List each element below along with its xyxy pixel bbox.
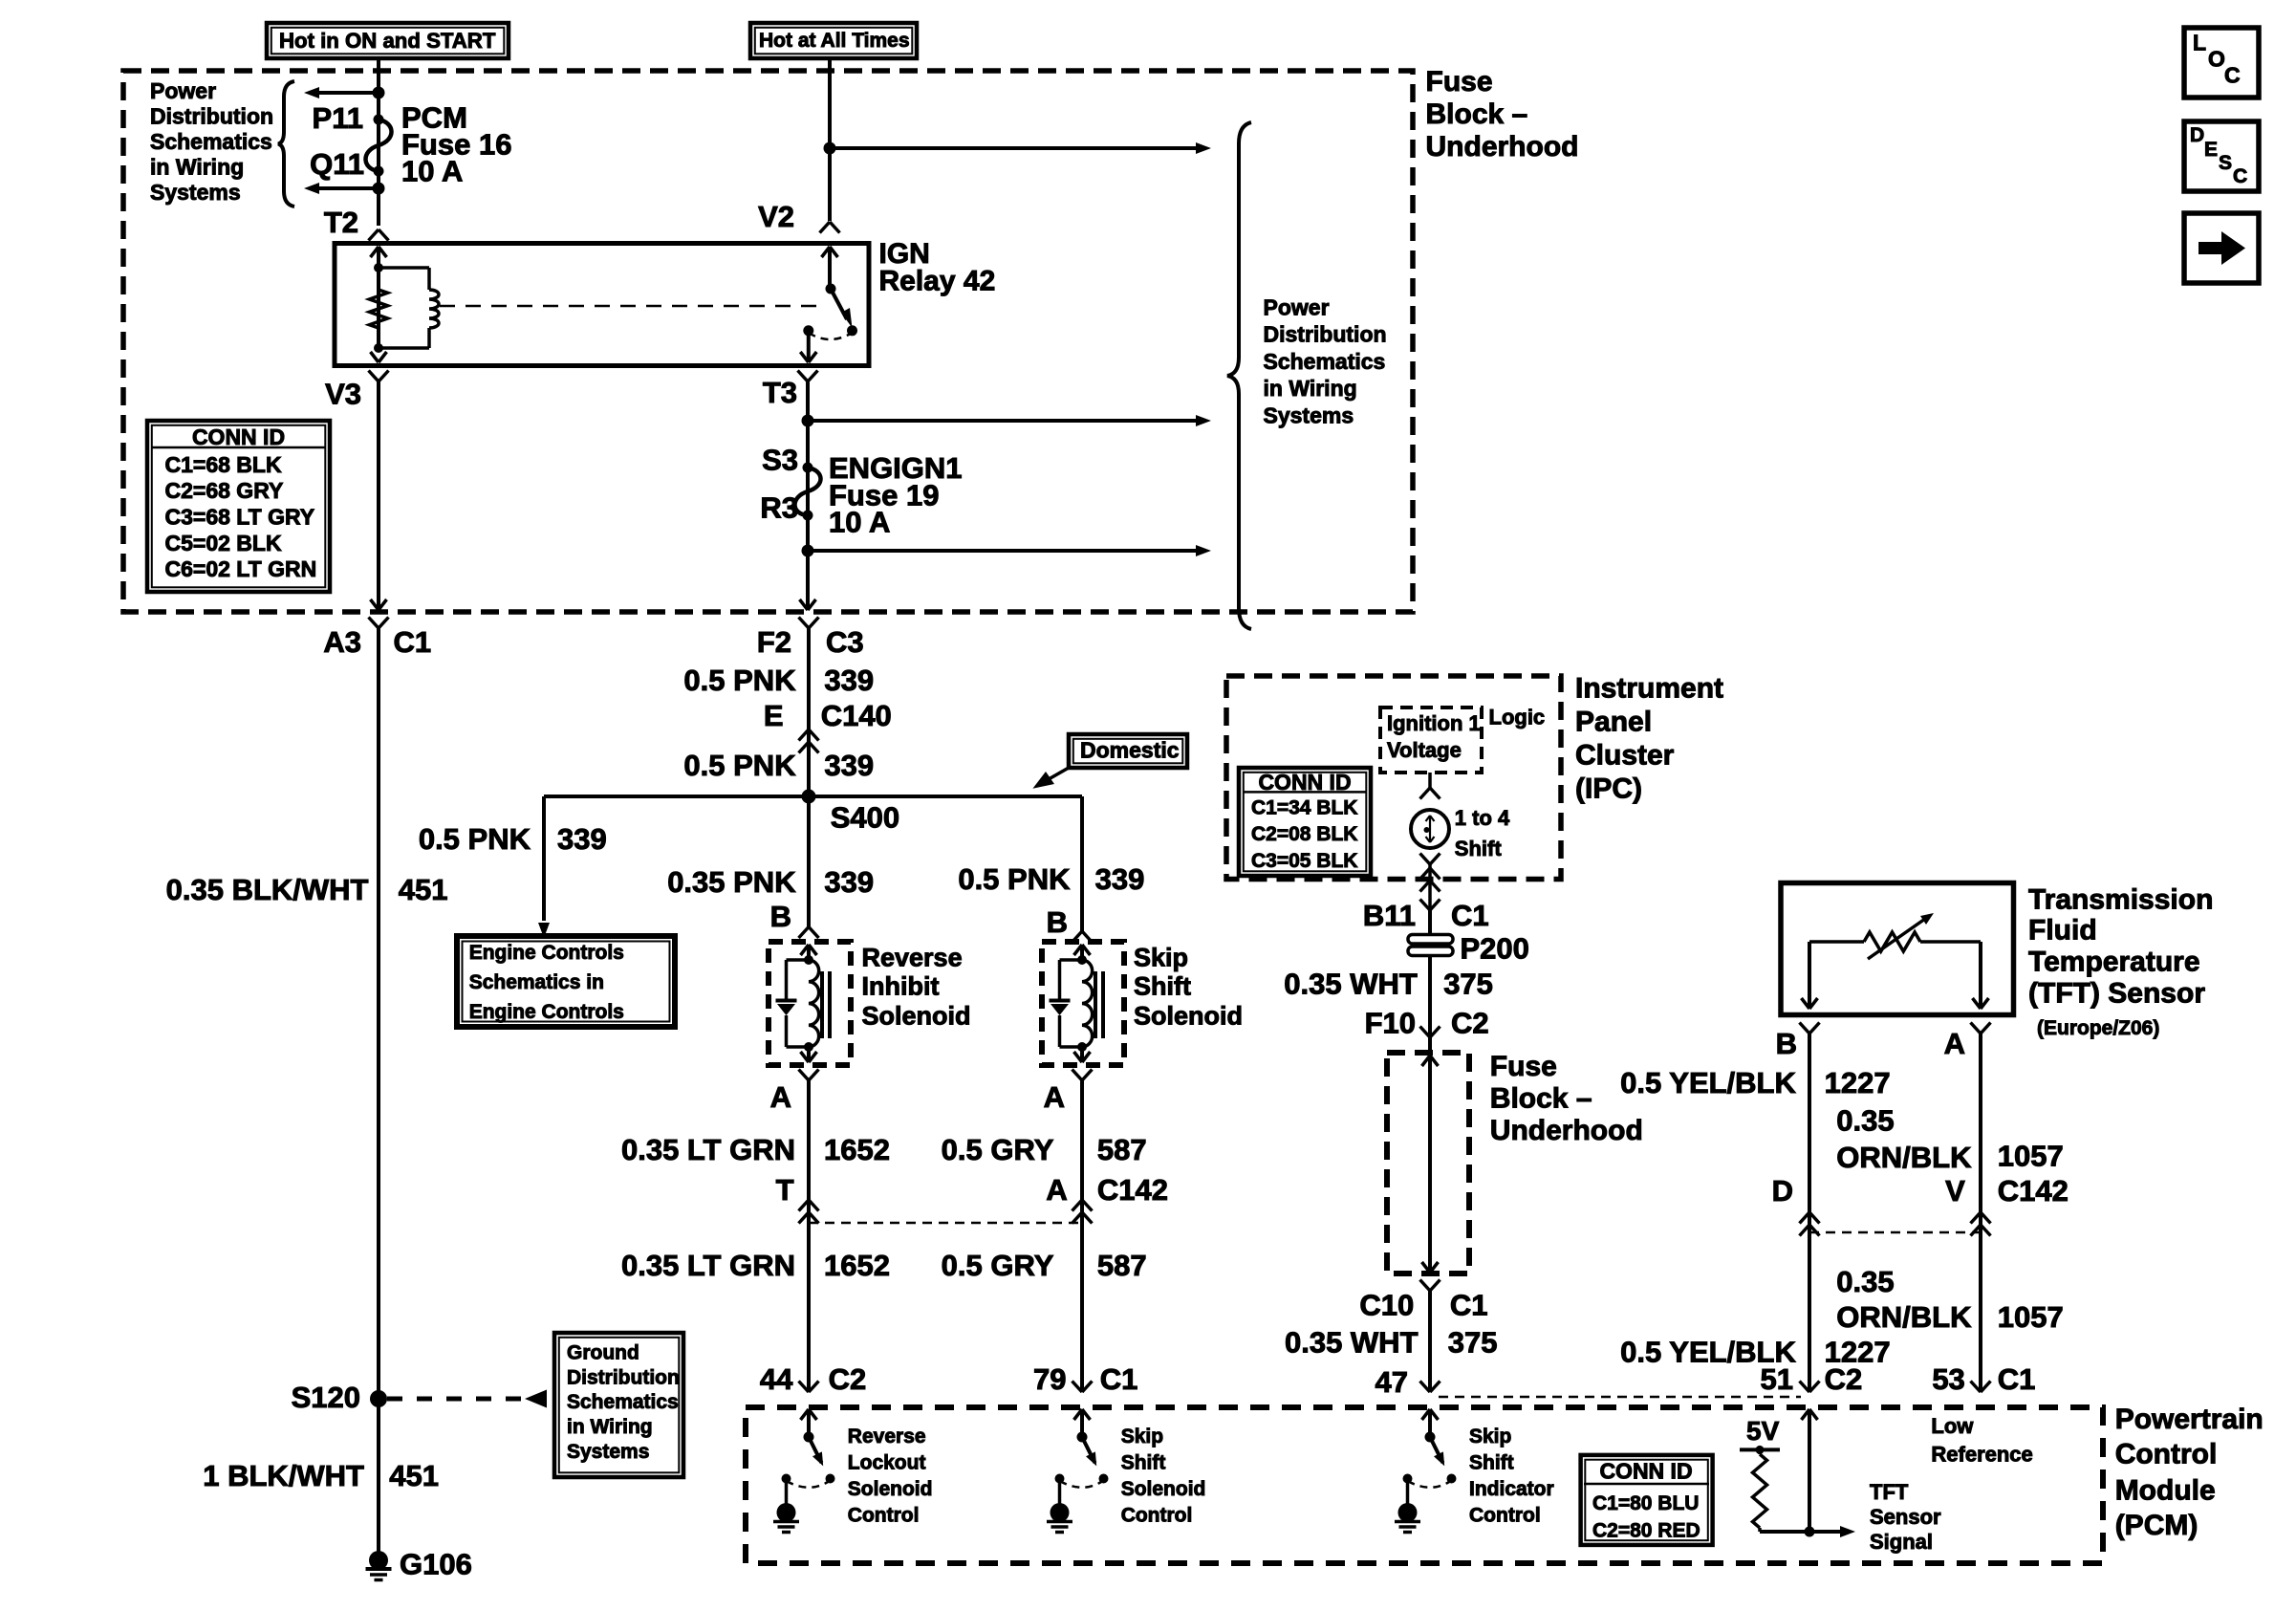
wire entering PCM [807,1409,811,1437]
forward arrow box [2184,213,2259,283]
svg-text:Skip: Skip [1121,1426,1163,1448]
note box: Ground Distribution Schematics in Wiring Systems [554,1333,683,1477]
svg-text:1 BLK/WHT: 1 BLK/WHT [203,1459,364,1492]
svg-text:Systems: Systems [150,180,241,205]
wire indicator to B11 [1420,854,1431,865]
svg-text:0.35 WHT: 0.35 WHT [1285,1325,1419,1359]
solenoid feed wire w/ arrows [807,945,811,960]
svg-text:Engine Controls: Engine Controls [469,942,624,964]
wire arrow to power distribution [315,186,379,190]
junction node (P11 feed) [373,87,385,99]
svg-text:Skip: Skip [1469,1426,1511,1448]
relay coil feed wire [377,247,380,348]
connector chevron V2 [820,222,831,233]
svg-text:339: 339 [824,749,874,782]
brace (right power distribution) [1227,122,1251,629]
wire T3 down [806,381,810,609]
connector chevron T2 [369,229,379,241]
svg-text:C2: C2 [829,1362,867,1396]
svg-text:Control: Control [1469,1505,1541,1527]
svg-text:Logic: Logic [1489,706,1546,729]
wire entering PCM [1428,1409,1432,1437]
svg-text:CONN ID: CONN ID [192,425,285,449]
svg-text:Inhibit: Inhibit [862,971,940,1000]
svg-text:Low: Low [1931,1414,1974,1438]
clamp diode [787,958,810,962]
svg-text:Systems: Systems [1264,403,1354,427]
junction node V2 branch [824,142,836,155]
wire entering PCM [1080,1409,1084,1437]
svg-text:(Europe/Z06): (Europe/Z06) [2037,1017,2159,1039]
svg-text:Relay 42: Relay 42 [879,266,996,297]
svg-text:339: 339 [557,822,607,856]
wire: hot at all times feed [828,58,832,221]
svg-text:0.5 GRY: 0.5 GRY [942,1133,1054,1166]
switch common contact [1425,1432,1436,1443]
svg-text:C2: C2 [1451,1007,1489,1040]
svg-text:B11: B11 [1363,899,1416,932]
dashed link to ground distribution [387,1397,525,1402]
svg-text:Solenoid: Solenoid [1134,1001,1243,1030]
connector C142 dashed link [809,1222,1082,1225]
svg-text:Fuse: Fuse [1426,66,1493,98]
svg-text:(IPC): (IPC) [1575,773,1642,805]
CONN ID table (IPC) [1239,768,1371,876]
wire arrow to power distribution brace [830,146,1197,150]
svg-text:Hot in ON and START: Hot in ON and START [279,29,496,53]
wire 339 PNK (upper) [807,628,811,927]
ground symbol [1398,1503,1418,1522]
svg-text:P200: P200 [1461,931,1529,965]
relay output arrow [371,352,379,362]
switch common contact [1077,1432,1088,1443]
svg-text:Underhood: Underhood [1490,1115,1643,1146]
relay switch travel arc [809,333,853,339]
solenoid core bars [1094,971,1097,1038]
connector T3 [798,371,809,382]
ground lead [1058,1479,1062,1506]
svg-text:0.5 PNK: 0.5 PNK [683,664,796,697]
svg-text:C2=08 BLK: C2=08 BLK [1251,823,1357,845]
junction node (arrow 3) [802,545,814,557]
svg-text:0.5 YEL/BLK: 0.5 YEL/BLK [1620,1066,1796,1099]
svg-text:C2=68 GRY: C2=68 GRY [165,478,284,503]
relay coil [379,266,429,270]
relay switch common [828,247,832,289]
wire: branch to skip shift solenoid [1080,796,1084,931]
svg-text:in Wiring: in Wiring [567,1416,653,1438]
svg-text:0.5 PNK: 0.5 PNK [419,822,531,856]
svg-text:F10: F10 [1365,1007,1416,1040]
switch closed contact [1099,1474,1109,1484]
relay IGN Relay 42 box [335,244,869,366]
junction node (arrow 2) [802,415,814,427]
switch blade w/ arrow [1430,1437,1443,1463]
svg-text:(TFT) Sensor: (TFT) Sensor [2028,978,2205,1010]
wire 1652 LT GRN [807,1080,811,1391]
terminal B / A [1800,1023,1810,1034]
svg-text:0.35 PNK: 0.35 PNK [667,865,796,899]
svg-text:T: T [776,1173,794,1207]
svg-text:ORN/BLK: ORN/BLK [1836,1300,1972,1334]
solenoid dashed outline [769,942,851,1065]
svg-text:Reverse: Reverse [848,1426,926,1448]
note box: Engine Controls Schematics in Engine Controls [457,936,675,1027]
fuse block underhood dashed box [123,71,1413,612]
svg-text:C3: C3 [826,625,864,659]
svg-text:A: A [1944,1027,1965,1060]
svg-text:D: D [1772,1174,1793,1208]
wire through fuse block [1428,1056,1432,1273]
DESC reference box [2184,121,2259,191]
solenoid dashed outline [1042,942,1124,1065]
svg-text:Transmission: Transmission [2028,884,2213,916]
relay output wire [807,331,811,361]
wire 587 GRY [1080,1080,1084,1391]
splice S120 [370,1390,387,1407]
svg-text:Underhood: Underhood [1426,131,1579,163]
svg-text:Solenoid: Solenoid [848,1478,933,1500]
svg-text:C3=05 BLK: C3=05 BLK [1251,850,1357,872]
TFT sensor signal node [1760,1530,1840,1534]
switch blade w/ arrow [809,1437,822,1463]
svg-text:Temperature: Temperature [2028,947,2200,978]
switch open contact [1403,1474,1413,1484]
svg-text:Schematics in: Schematics in [469,971,604,993]
svg-text:P11: P11 [313,101,363,135]
domestic pointer arrow [1042,768,1069,783]
svg-text:C1: C1 [1450,1289,1488,1322]
svg-text:Power: Power [1264,294,1330,319]
svg-text:S400: S400 [831,801,899,835]
svg-text:V: V [1945,1174,1965,1208]
svg-text:587: 587 [1097,1249,1147,1282]
svg-text:Schematics: Schematics [1264,349,1386,374]
svg-text:Ground: Ground [567,1342,639,1364]
powertrain control module dashed box [746,1407,2103,1563]
svg-text:Block –: Block – [1490,1083,1592,1115]
svg-text:F2: F2 [757,625,791,659]
svg-text:Powertrain: Powertrain [2115,1404,2264,1435]
in-line connector at IPC edge [1420,868,1431,880]
svg-text:C1=34 BLK: C1=34 BLK [1251,796,1357,818]
svg-text:Module: Module [2115,1474,2216,1506]
svg-text:Domestic: Domestic [1080,738,1180,763]
svg-text:Control: Control [848,1505,920,1527]
ground symbol [777,1503,796,1522]
wire: hot in ON/START feed [377,58,380,226]
svg-text:S120: S120 [292,1381,360,1414]
svg-text:Sensor: Sensor [1870,1505,1941,1529]
svg-text:C: C [2233,165,2247,187]
svg-text:0.5 PNK: 0.5 PNK [958,862,1071,896]
svg-text:339: 339 [1095,862,1145,896]
wire arrow to power distribution [315,91,379,95]
svg-text:Control: Control [1121,1505,1193,1527]
brace (left power distribution) [278,81,294,207]
wire 375 WHT (upper) [1428,955,1432,1035]
ground symbol [1051,1503,1070,1522]
svg-text:587: 587 [1097,1133,1147,1166]
dashed connector link 47-51 [1439,1396,1801,1399]
switch travel arc [1408,1481,1450,1488]
wire 51 into PCM [1808,1409,1811,1532]
connector C10|C1 [1420,1280,1431,1292]
fuse block underhood (lower) dashed box [1387,1053,1469,1274]
svg-text:A: A [1044,1080,1065,1114]
clamp diode [1060,958,1083,962]
CONN ID table (PCM) [1581,1455,1713,1545]
svg-text:C140: C140 [821,699,892,732]
svg-text:Engine Controls: Engine Controls [469,1001,624,1023]
relay switch blade [831,289,847,319]
wire: S400 branch bus [544,795,1082,798]
svg-text:Distribution: Distribution [1264,322,1387,347]
svg-text:Solenoid: Solenoid [862,1001,971,1030]
switch open contact [1055,1474,1065,1484]
svg-text:451: 451 [389,1459,439,1492]
label box "Hot at All Times" [750,23,917,58]
svg-text:C5=02 BLK: C5=02 BLK [165,531,282,555]
solenoid feed wire w/ arrows [1080,945,1084,960]
svg-text:1227: 1227 [1825,1066,1891,1099]
svg-text:10 A: 10 A [829,506,890,539]
svg-text:0.35 LT GRN: 0.35 LT GRN [621,1133,795,1166]
svg-text:S: S [2219,152,2232,174]
svg-text:47: 47 [1375,1365,1408,1399]
fuse PCM Fuse 16 10A [365,120,391,171]
svg-text:C1=68 BLK: C1=68 BLK [165,452,282,477]
svg-text:Voltage: Voltage [1387,738,1462,762]
svg-text:375: 375 [1448,1325,1498,1359]
svg-text:Reverse: Reverse [862,943,963,971]
svg-text:Skip: Skip [1134,943,1188,971]
svg-text:B: B [770,900,791,933]
svg-text:451: 451 [399,873,448,906]
connector A3|C1 [369,618,379,629]
connector V3 [369,371,379,382]
svg-text:339: 339 [824,664,874,697]
svg-text:Hot at All Times: Hot at All Times [759,30,910,52]
svg-text:V2: V2 [758,200,794,233]
svg-text:375: 375 [1443,967,1493,1000]
wire 451 BLK/WHT [377,628,380,1560]
switch closed contact [826,1474,835,1484]
svg-text:CONN ID: CONN ID [1258,770,1351,795]
svg-text:10 A: 10 A [401,155,463,188]
transmission fluid temperature sensor box [1781,883,2014,1015]
label box "Hot in ON and START" [267,23,509,58]
svg-text:in Wiring: in Wiring [1264,376,1357,401]
pass-through grommet P200 [1408,935,1453,945]
svg-text:E: E [764,699,784,732]
ground G106 [369,1551,388,1570]
svg-text:S3: S3 [762,444,798,477]
svg-text:Control: Control [2115,1439,2218,1470]
svg-text:T2: T2 [324,206,358,239]
svg-text:1057: 1057 [1998,1300,2064,1334]
switch blade w/ arrow [1082,1437,1095,1463]
svg-text:Q11: Q11 [310,147,364,181]
svg-text:C3=68 LT GRY: C3=68 LT GRY [165,505,315,530]
svg-text:Shift: Shift [1455,837,1503,860]
svg-text:C1: C1 [1998,1362,2036,1396]
svg-text:Instrument: Instrument [1575,672,1723,704]
svg-text:(PCM): (PCM) [2115,1510,2199,1541]
svg-text:C142: C142 [1998,1174,2069,1208]
ground lead [1406,1479,1410,1506]
svg-text:51: 51 [1761,1362,1793,1396]
solenoid coil winding [809,960,819,1047]
svg-text:Reference: Reference [1931,1442,2032,1466]
svg-text:Shift: Shift [1121,1452,1166,1474]
svg-text:0.35: 0.35 [1836,1104,1894,1138]
svg-text:C2: C2 [1825,1362,1863,1396]
svg-text:Cluster: Cluster [1575,740,1675,772]
svg-text:0.5 PNK: 0.5 PNK [683,749,796,782]
svg-text:1 to 4: 1 to 4 [1455,806,1510,830]
svg-text:0.35: 0.35 [1836,1265,1894,1298]
indicator: 1 to 4 Shift lamp [1411,810,1449,848]
svg-text:Schematics: Schematics [150,129,272,154]
splice S400 [802,790,816,804]
switch open contact [782,1474,791,1484]
svg-text:Panel: Panel [1575,706,1652,737]
wire 1227 YEL/BLK (upper) [1808,1034,1811,1391]
svg-text:T3: T3 [763,376,797,409]
connector B11|C1 [1420,900,1431,911]
solenoid core bars [820,971,824,1038]
svg-text:1652: 1652 [824,1249,890,1282]
svg-text:Fuse: Fuse [1490,1051,1557,1082]
svg-text:1057: 1057 [1998,1139,2064,1172]
svg-text:C: C [2224,63,2241,88]
svg-text:53: 53 [1932,1362,1964,1396]
svg-text:Power: Power [150,78,216,103]
svg-text:TFT: TFT [1870,1480,1909,1504]
svg-text:D: D [2190,124,2204,146]
svg-text:CONN ID: CONN ID [1599,1459,1692,1484]
svg-text:Schematics: Schematics [567,1391,679,1413]
connector F2|C3 [799,618,810,629]
switch common contact [804,1432,814,1443]
svg-text:Indicator: Indicator [1469,1478,1554,1500]
svg-text:C1=80 BLU: C1=80 BLU [1592,1492,1699,1514]
svg-text:G106: G106 [400,1548,472,1581]
option tag box "Domestic" [1069,734,1187,768]
svg-text:0.35 WHT: 0.35 WHT [1284,967,1418,1000]
svg-text:Systems: Systems [567,1441,649,1463]
thermistor adjust arrow [1868,919,1925,959]
switch travel arc [787,1481,829,1488]
svg-text:Shift: Shift [1469,1452,1514,1474]
wire 1057 ORN/BLK (upper) [1979,1034,1982,1391]
wire 375 WHT (lower) [1428,1291,1432,1391]
svg-text:1652: 1652 [824,1133,890,1166]
svg-text:B: B [1047,905,1068,939]
TFT thermistor zigzag [1864,932,1920,951]
terminal A (skip shift) [1072,1070,1083,1081]
wire: branch to engine controls [542,796,546,921]
svg-text:Ignition 1: Ignition 1 [1387,711,1481,735]
svg-text:Shift: Shift [1134,971,1191,1000]
svg-text:E: E [2204,139,2218,161]
svg-text:C1: C1 [1451,899,1489,932]
svg-text:44: 44 [760,1362,793,1396]
svg-text:A: A [1046,1173,1067,1207]
svg-text:Distribution: Distribution [150,104,273,129]
TFT internal wires [1808,942,1811,1008]
LOC reference box [2184,28,2259,98]
svg-text:Block –: Block – [1426,98,1528,130]
svg-text:79: 79 [1033,1362,1066,1396]
wire B11 to P200 [1428,910,1432,935]
relay resistor (parallel) [370,290,388,328]
wire from logic to indicator [1428,773,1432,788]
svg-text:R3: R3 [760,491,798,525]
svg-text:C142: C142 [1097,1173,1168,1207]
svg-text:5V: 5V [1746,1416,1780,1446]
junction node (Q11 out) [373,183,385,195]
svg-text:0.5 GRY: 0.5 GRY [942,1249,1054,1282]
svg-text:C2=80 RED: C2=80 RED [1592,1520,1700,1542]
svg-text:Distribution: Distribution [567,1366,680,1388]
svg-text:Fluid: Fluid [2028,915,2097,947]
ground lead [785,1479,789,1506]
svg-text:C6=02 LT GRN: C6=02 LT GRN [165,556,317,581]
svg-text:A3: A3 [323,625,361,659]
switch closed contact [1447,1474,1457,1484]
svg-text:0.35 BLK/WHT: 0.35 BLK/WHT [166,873,369,906]
svg-text:Lockout: Lockout [848,1452,926,1474]
relay switch contacts [847,325,857,336]
svg-text:L: L [2193,31,2206,55]
CONN ID table (fuse block) [147,421,330,592]
svg-text:339: 339 [824,865,874,899]
switch travel arc [1060,1481,1102,1488]
svg-text:C1: C1 [394,625,432,659]
pull-up resistor [1758,1449,1762,1454]
terminal A (reverse inhibit) [799,1070,810,1081]
relay coil-switch dashed link [440,305,818,308]
svg-text:C1: C1 [1100,1362,1138,1396]
svg-text:C10: C10 [1359,1289,1414,1322]
svg-text:in Wiring: in Wiring [150,155,244,180]
svg-text:A: A [770,1080,791,1114]
logic block "Ignition 1 Voltage" [1380,708,1482,773]
svg-text:0.35 LT GRN: 0.35 LT GRN [621,1249,795,1282]
instrument panel cluster dashed box [1226,676,1561,880]
svg-text:O: O [2208,47,2225,72]
svg-text:Signal: Signal [1870,1530,1933,1554]
solenoid coil winding [1082,960,1093,1047]
svg-text:V3: V3 [325,378,361,411]
fuse ENGIGN1 Fuse 19 10A [794,468,820,515]
svg-text:ORN/BLK: ORN/BLK [1836,1141,1972,1174]
wire V3 down to C1 [377,381,380,609]
svg-text:Solenoid: Solenoid [1121,1478,1206,1500]
svg-text:B: B [1776,1027,1797,1060]
